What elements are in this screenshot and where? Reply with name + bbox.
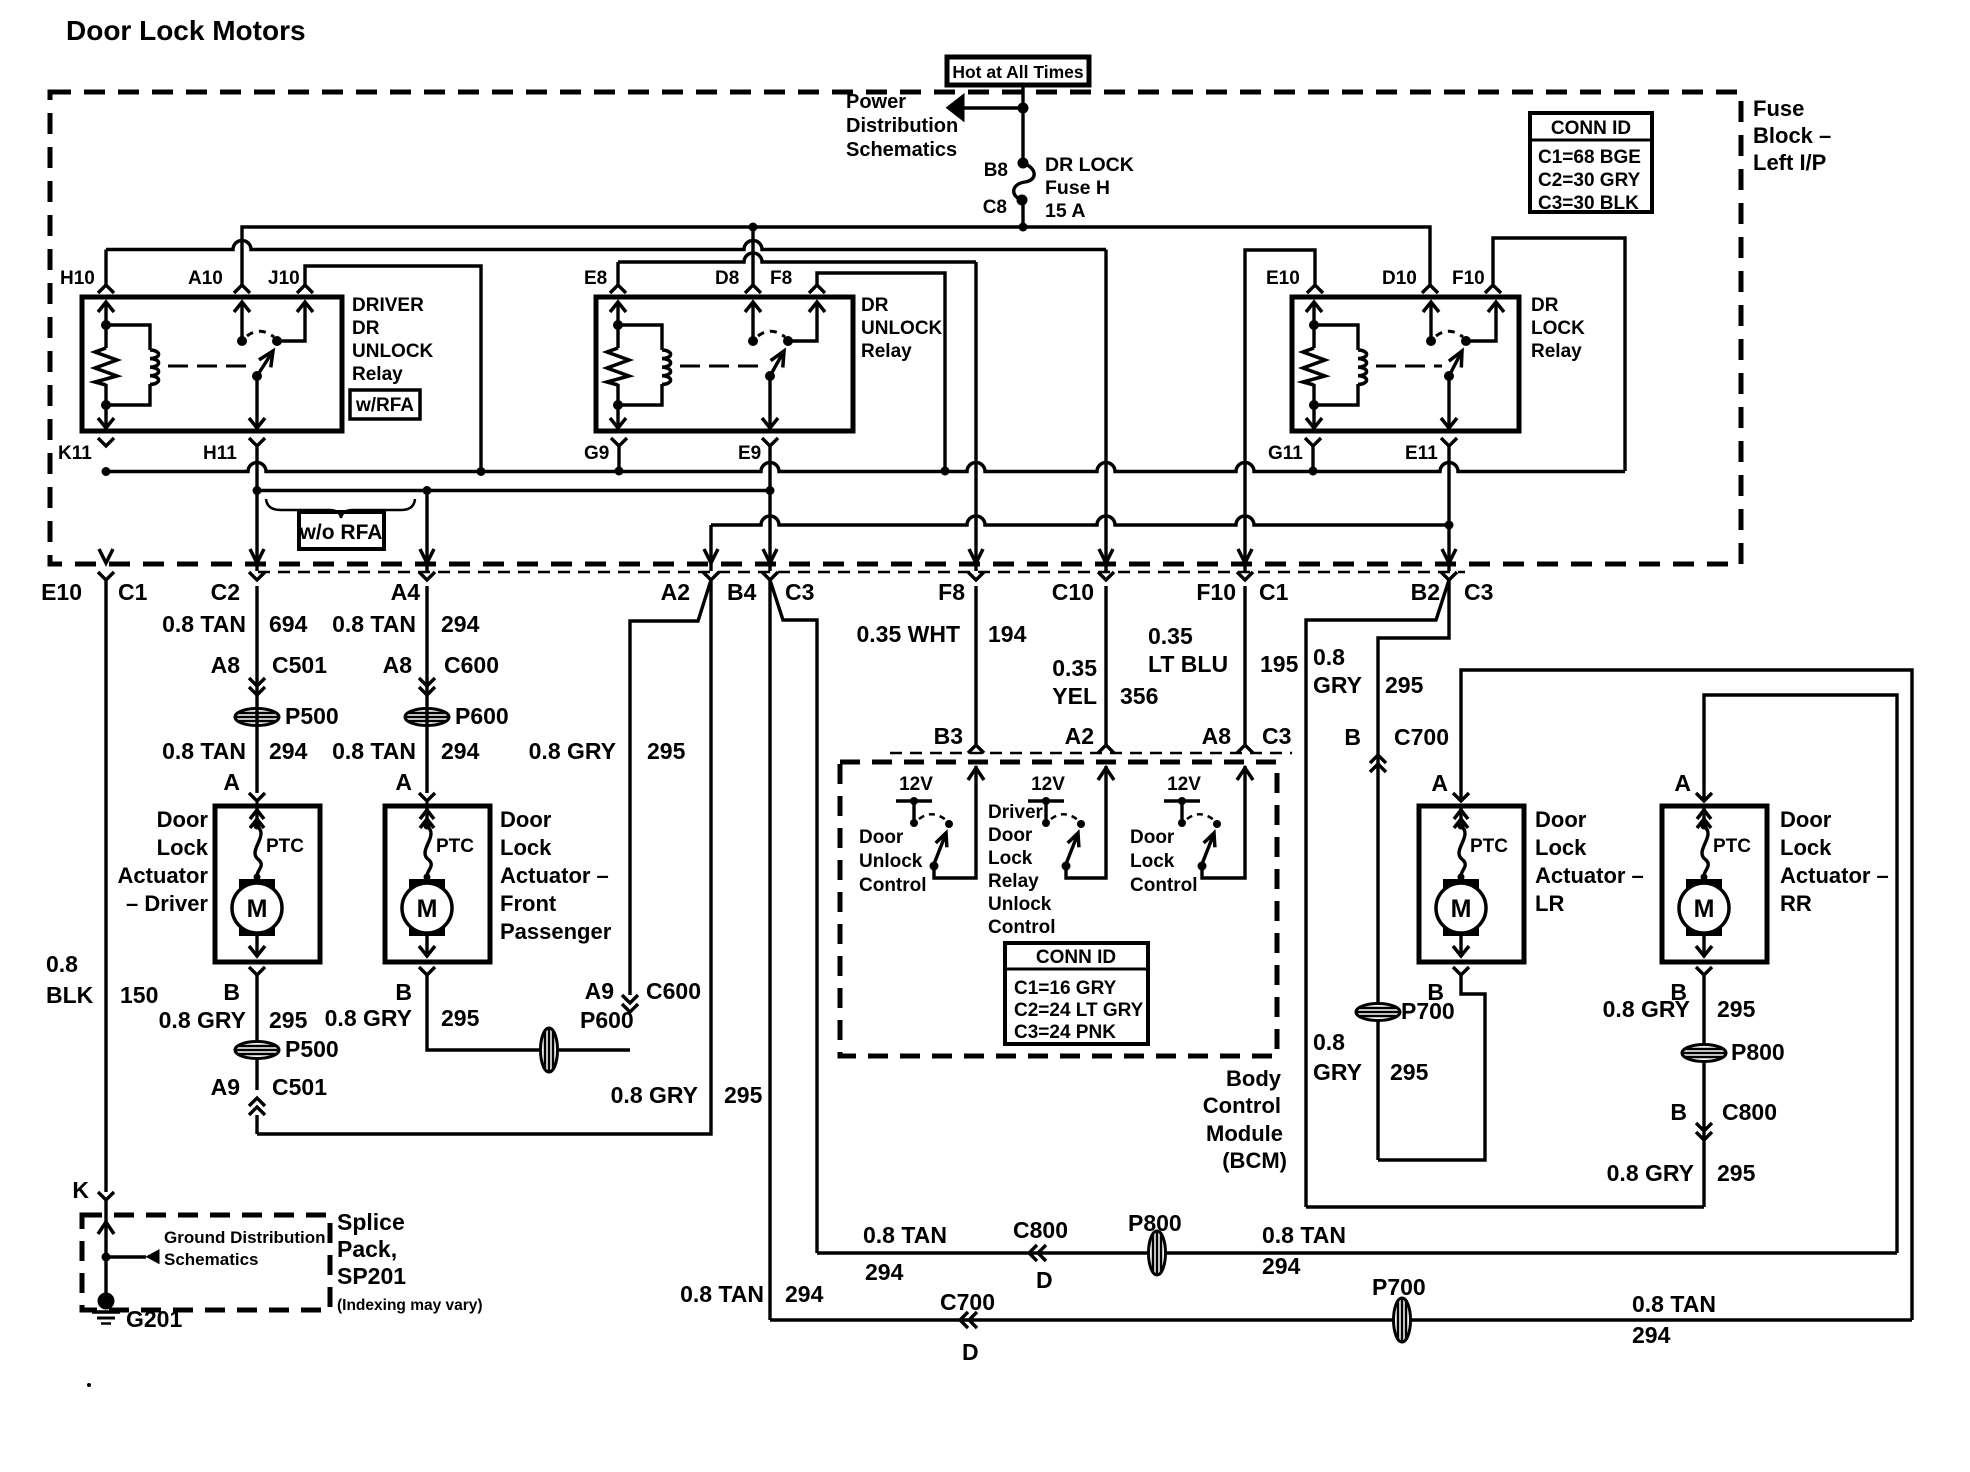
svg-text:294: 294 xyxy=(441,611,480,637)
svg-text:A: A xyxy=(223,769,240,795)
svg-text:PTC: PTC xyxy=(1713,836,1751,857)
wire driver return to junction B4 xyxy=(255,1058,258,1090)
svg-text:15 A: 15 A xyxy=(1045,200,1085,222)
svg-text:0.8 GRY: 0.8 GRY xyxy=(529,738,616,764)
svg-text:A8: A8 xyxy=(383,652,413,678)
svg-text:A10: A10 xyxy=(188,268,223,289)
wire A4 to passenger actuator xyxy=(425,586,428,793)
relay switch output wire xyxy=(788,302,817,341)
relay switch common-in vertical xyxy=(240,302,243,341)
BCM switch output wire xyxy=(934,766,976,878)
connector row arrows crossing fuse block boundary xyxy=(99,549,113,563)
svg-text:M: M xyxy=(247,895,268,923)
svg-text:Control: Control xyxy=(1203,1093,1281,1118)
svg-text:Fuse H: Fuse H xyxy=(1045,177,1110,199)
svg-text:Door: Door xyxy=(157,807,209,832)
wire C1 to BCM A8 xyxy=(1243,586,1246,745)
svg-text:LT BLU: LT BLU xyxy=(1148,651,1228,677)
svg-text:12V: 12V xyxy=(1167,774,1201,795)
svg-text:195: 195 xyxy=(1260,651,1299,677)
svg-text:C1: C1 xyxy=(118,579,148,605)
svg-text:Lock: Lock xyxy=(1130,851,1175,872)
svg-text:Schematics: Schematics xyxy=(164,1250,259,1269)
svg-text:C1=68 BGE: C1=68 BGE xyxy=(1538,147,1641,168)
ground distribution reference arrow xyxy=(102,1253,111,1262)
svg-text:295: 295 xyxy=(1717,996,1756,1022)
actuator PTC thermistor xyxy=(1458,823,1465,830)
svg-text:F8: F8 xyxy=(770,268,792,289)
wire C3 diagonal to C800 branch xyxy=(770,580,817,1253)
relay switch lever xyxy=(257,351,273,376)
w/o RFA underbrace xyxy=(266,499,415,518)
svg-text:B2: B2 xyxy=(1411,579,1440,605)
svg-text:F8: F8 xyxy=(938,579,965,605)
svg-text:Lock: Lock xyxy=(500,835,552,860)
svg-text:B: B xyxy=(1344,724,1361,750)
splice P800 mid xyxy=(1682,1045,1726,1062)
svg-text:295: 295 xyxy=(724,1082,763,1108)
svg-text:295: 295 xyxy=(1385,672,1424,698)
svg-text:C8: C8 xyxy=(983,197,1007,218)
splice P700 mid xyxy=(1356,1004,1400,1021)
actuator feed wire + arrow xyxy=(425,806,428,826)
svg-text:0.8 TAN: 0.8 TAN xyxy=(1262,1222,1346,1248)
svg-text:Door: Door xyxy=(500,807,552,832)
svg-text:0.8 TAN: 0.8 TAN xyxy=(680,1281,764,1307)
svg-text:Door: Door xyxy=(988,825,1033,846)
svg-text:Actuator –: Actuator – xyxy=(1535,863,1644,888)
actuator return wire + arrow xyxy=(1702,936,1705,957)
svg-text:DRIVER: DRIVER xyxy=(352,295,424,316)
svg-text:C700: C700 xyxy=(940,1289,995,1315)
svg-text:0.35: 0.35 xyxy=(1052,655,1097,681)
relay coil branch vertical xyxy=(616,302,619,348)
actuator feed wire + arrow xyxy=(1702,806,1705,826)
svg-text:B4: B4 xyxy=(727,579,757,605)
svg-text:295: 295 xyxy=(647,738,686,764)
wire B2 to RR actuator return xyxy=(1306,580,1449,1207)
svg-text:Passenger: Passenger xyxy=(500,919,612,944)
svg-text:CONN ID: CONN ID xyxy=(1551,118,1631,139)
wire E11 lock output drop xyxy=(1447,446,1450,571)
svg-text:A9: A9 xyxy=(211,1074,240,1100)
svg-text:DR: DR xyxy=(1531,295,1559,316)
svg-text:M: M xyxy=(417,895,438,923)
svg-text:295: 295 xyxy=(269,1007,308,1033)
svg-text:294: 294 xyxy=(1262,1253,1301,1279)
svg-text:0.8: 0.8 xyxy=(1313,1029,1345,1055)
BCM dashed box xyxy=(840,762,1277,1056)
wire F10 to ground bus xyxy=(1493,238,1625,471)
svg-text:Unlock: Unlock xyxy=(859,851,923,872)
svg-text:0.8 GRY: 0.8 GRY xyxy=(1603,996,1690,1022)
wire bus A fused power xyxy=(242,227,1430,285)
svg-text:DR: DR xyxy=(861,295,889,316)
svg-text:694: 694 xyxy=(269,611,308,637)
svg-text:Door: Door xyxy=(1780,807,1832,832)
svg-text:0.8 GRY: 0.8 GRY xyxy=(159,1007,246,1033)
relay switch common-out vertical xyxy=(255,376,258,428)
svg-text:Hot at All Times: Hot at All Times xyxy=(952,62,1084,82)
pin C2 xyxy=(249,572,265,580)
BCM switch lever xyxy=(934,836,945,864)
svg-text:294: 294 xyxy=(269,738,308,764)
actuator PTC thermistor xyxy=(424,823,431,830)
wire A4 drop xyxy=(425,491,428,572)
svg-text:LR: LR xyxy=(1535,891,1564,916)
pin F10 lower / C1 xyxy=(1237,572,1253,580)
svg-text:Body: Body xyxy=(1226,1066,1282,1091)
svg-text:0.8 GRY: 0.8 GRY xyxy=(1607,1160,1694,1186)
actuator return wire + arrow xyxy=(425,936,428,957)
wire hot feed vertical xyxy=(1021,84,1024,163)
wire K into splice pack xyxy=(104,1200,107,1293)
BCM switch dashed arc xyxy=(1187,814,1214,820)
svg-text:C600: C600 xyxy=(444,652,499,678)
splice P500 upper xyxy=(235,709,279,726)
Hot at All Times tag box xyxy=(947,57,1089,85)
pin F8 lower xyxy=(968,572,984,580)
relay coil xyxy=(106,325,150,350)
svg-text:Block –: Block – xyxy=(1753,123,1831,148)
svg-text:295: 295 xyxy=(1390,1059,1429,1085)
wire C700 lock feed line xyxy=(770,1318,1912,1321)
wire C2 to driver actuator xyxy=(255,586,258,793)
svg-text:0.8: 0.8 xyxy=(46,951,78,977)
svg-text:PTC: PTC xyxy=(1470,836,1508,857)
splice P500 lower xyxy=(235,1042,279,1059)
svg-text:D: D xyxy=(1036,1267,1053,1293)
page speck xyxy=(87,1383,91,1387)
svg-text:0.8 TAN: 0.8 TAN xyxy=(162,738,246,764)
svg-text:C3: C3 xyxy=(785,579,814,605)
svg-text:356: 356 xyxy=(1120,683,1158,709)
svg-text:C2=24 LT GRY: C2=24 LT GRY xyxy=(1014,1000,1144,1021)
actuator return wire + arrow xyxy=(255,936,258,957)
relay switch output wire xyxy=(1466,302,1496,341)
relay coil xyxy=(618,325,662,350)
svg-text:E8: E8 xyxy=(584,268,607,289)
relay coil-to-switch mechanical link (dashed) xyxy=(168,365,250,368)
pin A4 xyxy=(419,572,435,580)
svg-text:C3: C3 xyxy=(1464,579,1493,605)
relay coil suppression resistor xyxy=(607,348,629,385)
wire bus E lock output to rear via B2 C3 xyxy=(709,525,712,571)
svg-text:Actuator –: Actuator – xyxy=(1780,863,1889,888)
svg-text:294: 294 xyxy=(441,738,480,764)
svg-text:A2: A2 xyxy=(661,579,690,605)
svg-text:w/o RFA: w/o RFA xyxy=(299,521,383,544)
svg-text:J10: J10 xyxy=(268,268,300,289)
wire B4 to driver actuator return path xyxy=(257,580,711,1134)
relay switch common-out vertical xyxy=(768,376,771,428)
connector id table CONN ID BCM xyxy=(1005,943,1148,1044)
pin A2 xyxy=(703,572,719,580)
svg-text:DR: DR xyxy=(352,318,380,339)
svg-text:C1: C1 xyxy=(1259,579,1289,605)
wire J10 to ground bus xyxy=(305,266,481,471)
wire F8 to ground bus xyxy=(817,273,945,471)
relay switch output wire xyxy=(277,302,305,341)
actuator return wire + arrow xyxy=(1459,936,1462,957)
actuator feed wire + arrow xyxy=(1459,806,1462,826)
svg-text:C501: C501 xyxy=(272,652,327,678)
svg-text:(BCM): (BCM) xyxy=(1222,1148,1287,1173)
wire A2 to front passenger actuator xyxy=(630,580,711,995)
actuator PTC thermistor xyxy=(254,823,261,830)
w/o RFA variant tag xyxy=(299,512,384,549)
splice P700 bottom xyxy=(1394,1298,1411,1342)
svg-text:G11: G11 xyxy=(1268,443,1303,464)
svg-text:D8: D8 xyxy=(715,268,739,289)
relay box xyxy=(596,297,853,431)
svg-text:Power: Power xyxy=(846,91,906,113)
actuator motor M xyxy=(1443,879,1479,936)
wire LR B loop xyxy=(1378,975,1485,1160)
actuator motor M xyxy=(239,879,275,936)
relay coil branch vertical xyxy=(104,302,107,348)
svg-text:GRY: GRY xyxy=(1313,1059,1362,1085)
svg-text:UNLOCK: UNLOCK xyxy=(352,341,434,362)
wire D8 power drop xyxy=(751,227,754,285)
BCM connector dashed row xyxy=(890,752,1292,755)
relay box xyxy=(1292,297,1519,431)
svg-text:(Indexing may vary): (Indexing may vary) xyxy=(337,1297,483,1314)
wire RR B drop xyxy=(1702,975,1705,1207)
BCM switch output wire xyxy=(1066,766,1106,878)
relay switch dashed arc xyxy=(1436,331,1463,337)
svg-text:LOCK: LOCK xyxy=(1531,318,1585,339)
actuator box xyxy=(1662,806,1767,962)
wire C800 lock feed line xyxy=(817,1251,1897,1254)
svg-text:Door: Door xyxy=(1535,807,1587,832)
svg-text:C1=16 GRY: C1=16 GRY xyxy=(1014,978,1117,999)
wire C700 to P700 xyxy=(1377,646,1379,655)
svg-text:Distribution: Distribution xyxy=(846,115,958,137)
svg-text:C600: C600 xyxy=(646,978,701,1004)
svg-text:RR: RR xyxy=(1780,891,1812,916)
svg-text:Unlock: Unlock xyxy=(988,894,1052,915)
svg-text:Relay: Relay xyxy=(1531,341,1582,362)
BCM switch dashed arc xyxy=(1051,814,1078,820)
svg-text:DR LOCK: DR LOCK xyxy=(1045,154,1134,176)
svg-text:0.8 TAN: 0.8 TAN xyxy=(332,738,416,764)
wire RR A feed xyxy=(1704,695,1897,1253)
svg-text:A: A xyxy=(1431,770,1448,796)
relay coil xyxy=(1314,325,1358,350)
svg-text:C3: C3 xyxy=(1262,723,1291,749)
relay coil branch vertical xyxy=(1312,302,1315,348)
relay box xyxy=(82,297,342,431)
relay coil suppression resistor xyxy=(1303,348,1325,385)
svg-text:Lock: Lock xyxy=(988,848,1033,869)
power distribution reference arrow xyxy=(962,106,1023,109)
pin C3 rear lock feed xyxy=(762,572,778,580)
svg-text:B3: B3 xyxy=(934,723,963,749)
svg-text:GRY: GRY xyxy=(1313,672,1362,698)
svg-text:F10: F10 xyxy=(1452,268,1485,289)
svg-text:K: K xyxy=(72,1177,89,1203)
svg-text:B: B xyxy=(223,979,240,1005)
relay coil suppression resistor xyxy=(95,348,117,385)
wire lock feed straight drop xyxy=(768,580,771,1320)
pin C10 xyxy=(1098,572,1114,580)
svg-text:B8: B8 xyxy=(984,160,1008,181)
svg-text:C501: C501 xyxy=(272,1074,327,1100)
relay coil-to-switch mechanical link (dashed) xyxy=(680,365,763,368)
relay switch common-in vertical xyxy=(1429,302,1432,341)
wire bus C ground distribution xyxy=(106,463,1625,472)
svg-text:Driver: Driver xyxy=(988,802,1044,823)
svg-text:P800: P800 xyxy=(1128,1210,1182,1236)
svg-text:Door: Door xyxy=(1130,827,1175,848)
svg-text:194: 194 xyxy=(988,621,1027,647)
svg-text:A4: A4 xyxy=(391,579,421,605)
svg-text:Ground Distribution: Ground Distribution xyxy=(164,1228,325,1247)
svg-text:C3=30 BLK: C3=30 BLK xyxy=(1538,193,1639,214)
svg-text:P800: P800 xyxy=(1731,1039,1785,1065)
splice pack dashed box xyxy=(82,1215,330,1310)
svg-text:Pack,: Pack, xyxy=(337,1236,397,1262)
ground G201 xyxy=(98,1293,115,1310)
svg-text:CONN ID: CONN ID xyxy=(1036,947,1116,968)
svg-text:Relay: Relay xyxy=(352,364,403,385)
wire C10 drop from bus B xyxy=(1104,250,1107,572)
svg-text:C700: C700 xyxy=(1394,724,1449,750)
wire driver return to P500 xyxy=(255,975,258,1042)
svg-text:0.8 TAN: 0.8 TAN xyxy=(332,611,416,637)
svg-text:BLK: BLK xyxy=(46,982,94,1008)
pin E10 C1 splice-feed xyxy=(98,572,114,580)
wire E9 unlock output drop xyxy=(768,446,771,571)
wire F8 to BCM B3 xyxy=(974,586,977,745)
svg-text:Schematics: Schematics xyxy=(846,139,957,161)
svg-text:H10: H10 xyxy=(60,268,95,289)
svg-text:C2=30 GRY: C2=30 GRY xyxy=(1538,170,1641,191)
svg-text:Relay: Relay xyxy=(988,871,1039,892)
svg-text:12V: 12V xyxy=(899,774,933,795)
svg-text:A9: A9 xyxy=(585,978,614,1004)
wire E10 coil feed from C1 branch xyxy=(1245,250,1315,571)
svg-text:Relay: Relay xyxy=(861,341,912,362)
BCM switch lever xyxy=(1202,836,1213,864)
svg-text:0.8 TAN: 0.8 TAN xyxy=(1632,1291,1716,1317)
connector id table CONN ID fuse block xyxy=(1530,113,1652,212)
svg-text:Control: Control xyxy=(988,917,1056,938)
svg-text:0.8: 0.8 xyxy=(1313,644,1345,670)
svg-text:M: M xyxy=(1451,895,1472,923)
splice P600 lower xyxy=(541,1028,558,1072)
svg-text:0.8 TAN: 0.8 TAN xyxy=(863,1222,947,1248)
BCM switch lever xyxy=(1066,836,1077,864)
actuator box xyxy=(385,806,490,962)
svg-text:PTC: PTC xyxy=(436,836,474,857)
wire C3 to LR actuator return xyxy=(1378,580,1449,1160)
fuse block dashed boundary box xyxy=(50,92,1741,564)
actuator box xyxy=(1419,806,1524,962)
svg-text:C10: C10 xyxy=(1052,579,1094,605)
in-line connector dashed row xyxy=(258,571,1465,574)
svg-text:Splice: Splice xyxy=(337,1209,405,1235)
svg-text:M: M xyxy=(1694,895,1715,923)
svg-text:Actuator: Actuator xyxy=(118,863,209,888)
svg-text:Fuse: Fuse xyxy=(1753,96,1804,121)
svg-text:A: A xyxy=(395,769,412,795)
svg-text:P600: P600 xyxy=(455,703,509,729)
actuator motor M xyxy=(1686,879,1722,936)
actuator feed wire + arrow xyxy=(255,806,258,826)
svg-text:Module: Module xyxy=(1206,1121,1283,1146)
svg-text:K11: K11 xyxy=(58,443,92,464)
svg-text:G9: G9 xyxy=(584,443,609,464)
svg-text:Front: Front xyxy=(500,891,557,916)
svg-text:Control: Control xyxy=(1130,875,1198,896)
svg-text:Left I/P: Left I/P xyxy=(1753,150,1826,175)
relay coil-to-switch mechanical link (dashed) xyxy=(1376,365,1442,368)
svg-text:P600: P600 xyxy=(580,1007,634,1033)
svg-text:G201: G201 xyxy=(126,1306,182,1332)
svg-text:B: B xyxy=(1670,1099,1687,1125)
svg-text:C3=24 PNK: C3=24 PNK xyxy=(1014,1022,1116,1043)
svg-text:A: A xyxy=(1674,770,1691,796)
relay switch dashed arc xyxy=(758,331,785,337)
svg-text:C800: C800 xyxy=(1013,1217,1068,1243)
svg-text:294: 294 xyxy=(785,1281,824,1307)
pin B2 xyxy=(1441,572,1457,580)
svg-text:A8: A8 xyxy=(211,652,241,678)
svg-text:A8: A8 xyxy=(1202,723,1232,749)
relay switch dashed arc xyxy=(247,331,274,337)
svg-text:H11: H11 xyxy=(203,443,237,464)
svg-text:UNLOCK: UNLOCK xyxy=(861,318,943,339)
BCM switch output wire xyxy=(1202,766,1245,878)
wire LR A feed xyxy=(1461,670,1912,1320)
svg-text:Lock: Lock xyxy=(1535,835,1587,860)
w/RFA variant tag xyxy=(350,390,420,419)
wire C10 to BCM A2 xyxy=(1104,586,1107,745)
svg-text:Door: Door xyxy=(859,827,904,848)
svg-text:E10: E10 xyxy=(1266,268,1300,289)
svg-text:E9: E9 xyxy=(738,443,761,464)
splice P800 bottom xyxy=(1149,1231,1166,1275)
wire RR B to B2 xyxy=(1306,1205,1704,1208)
svg-text:294: 294 xyxy=(1632,1322,1671,1348)
svg-text:P500: P500 xyxy=(285,1036,339,1062)
svg-text:Lock: Lock xyxy=(1780,835,1832,860)
svg-text:150: 150 xyxy=(120,982,158,1008)
svg-text:Actuator –: Actuator – xyxy=(500,863,609,888)
svg-text:0.8 GRY: 0.8 GRY xyxy=(325,1005,412,1031)
svg-text:295: 295 xyxy=(1717,1160,1756,1186)
wire H11 drop to C2 xyxy=(255,447,258,571)
svg-text:12V: 12V xyxy=(1031,774,1065,795)
svg-text:SP201: SP201 xyxy=(337,1263,406,1289)
relay switch lever xyxy=(1449,351,1462,376)
svg-text:C2: C2 xyxy=(211,579,240,605)
svg-text:294: 294 xyxy=(865,1259,904,1285)
svg-text:Door Lock Motors: Door Lock Motors xyxy=(66,15,306,46)
svg-text:A2: A2 xyxy=(1065,723,1094,749)
actuator motor M xyxy=(409,879,445,936)
svg-text:P700: P700 xyxy=(1372,1274,1426,1300)
svg-text:B: B xyxy=(395,979,412,1005)
relay switch common-in vertical xyxy=(751,302,754,341)
svg-text:B: B xyxy=(1427,979,1444,1005)
wire bus D unlock to front doors xyxy=(257,489,771,492)
svg-text:D10: D10 xyxy=(1382,268,1417,289)
svg-text:295: 295 xyxy=(441,1005,480,1031)
svg-text:E10: E10 xyxy=(41,579,82,605)
